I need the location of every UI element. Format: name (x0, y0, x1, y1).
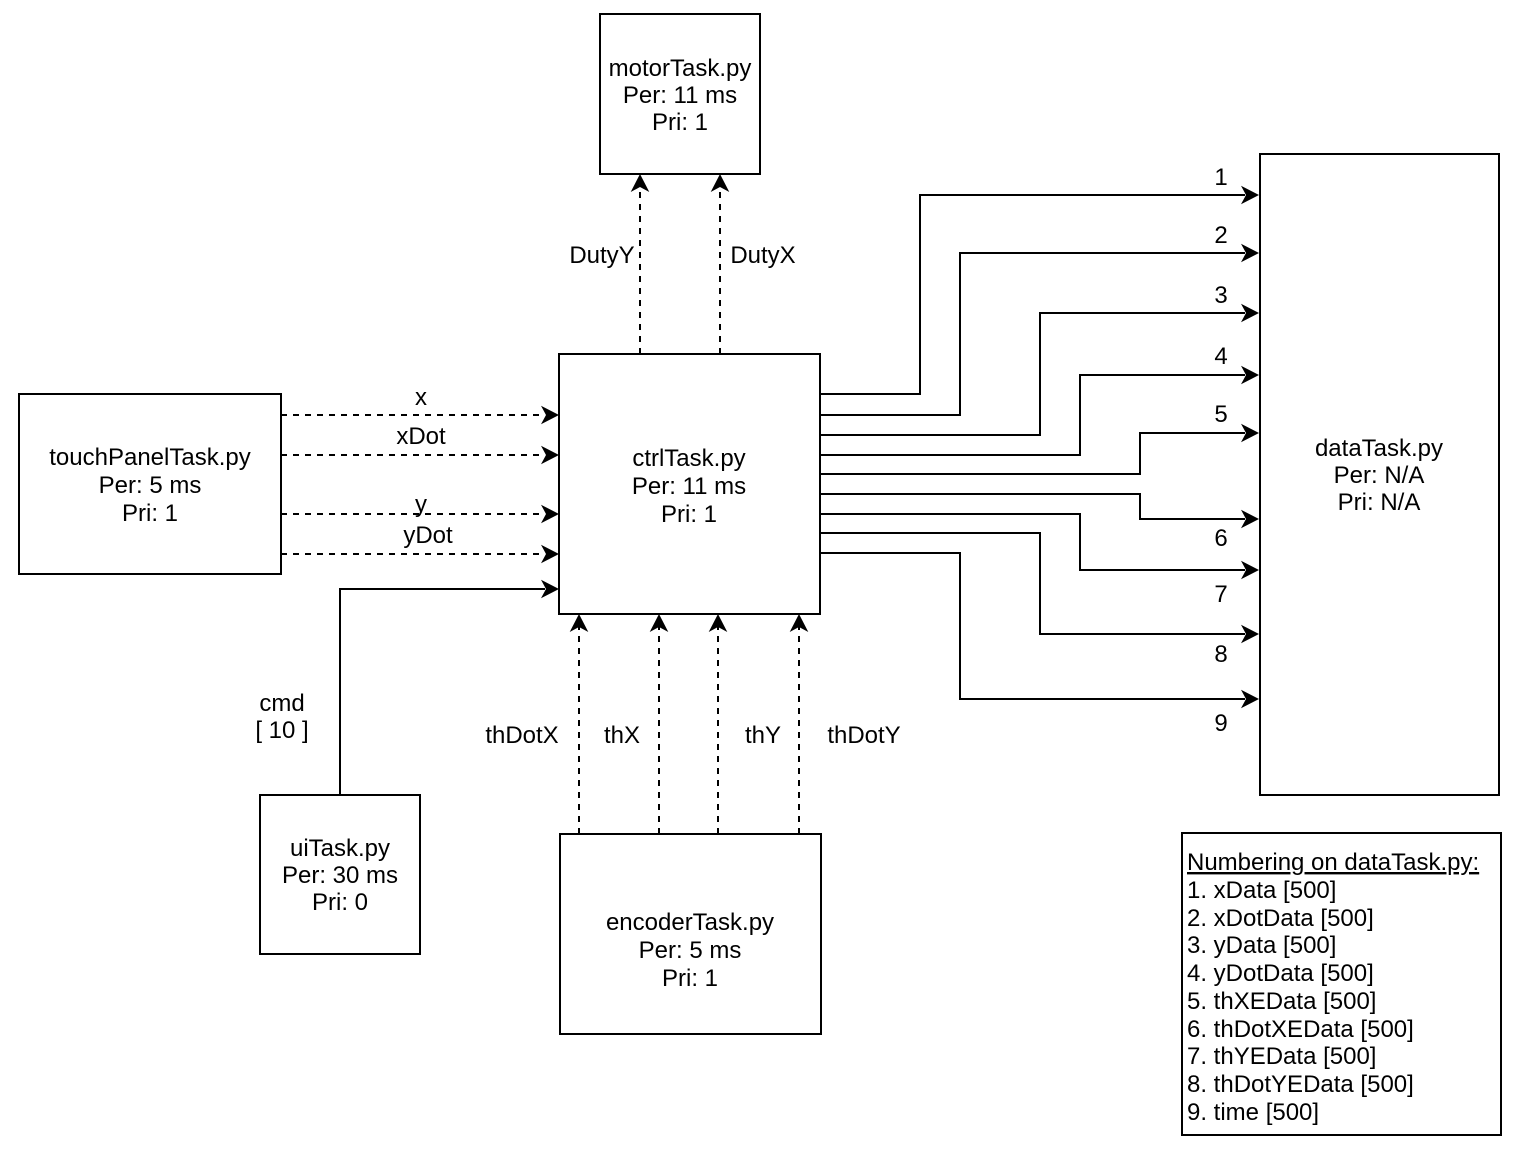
dashed wire xDot (touchPanelTask to ctrlTask) (281, 423, 559, 464)
svg-text:Per: 30 ms: Per: 30 ms (282, 862, 398, 889)
svg-text:y: y (415, 491, 427, 518)
dashed wire x (touchPanelTask to ctrlTask) (281, 384, 559, 424)
svg-text:Numbering on dataTask.py:: Numbering on dataTask.py: (1187, 849, 1479, 876)
dashed wire thDotX (encoderTask to ctrlTask) (485, 614, 588, 834)
wire 5 thXEData (ctrlTask to dataTask) (820, 424, 1259, 474)
svg-text:1. xData [500]: 1. xData [500] (1187, 877, 1336, 904)
svg-text:uiTask.py: uiTask.py (290, 835, 390, 862)
svg-text:cmd: cmd (259, 690, 304, 717)
dashed wire thY (encoderTask to ctrlTask) (709, 614, 781, 834)
svg-text:9: 9 (1214, 710, 1227, 737)
svg-text:ctrlTask.py: ctrlTask.py (632, 445, 745, 472)
wire 2 xDotData (ctrlTask to dataTask) (820, 244, 1259, 415)
wire 6 thDotXEData (ctrlTask to dataTask) (820, 494, 1259, 528)
svg-text:x: x (415, 384, 427, 411)
dashed wire y (touchPanelTask to ctrlTask) (281, 491, 559, 523)
svg-text:[ 10 ]: [ 10 ] (255, 717, 308, 744)
svg-text:Per: 5 ms: Per: 5 ms (99, 472, 202, 499)
svg-text:Pri: 1: Pri: 1 (662, 965, 718, 992)
box uiTask.py (260, 795, 420, 954)
dashed wire DutyY (ctrlTask to motorTask) (569, 174, 649, 354)
box dataTask.py (1260, 154, 1499, 795)
svg-text:dataTask.py: dataTask.py (1315, 435, 1443, 462)
svg-text:thY: thY (745, 722, 781, 749)
svg-text:touchPanelTask.py: touchPanelTask.py (49, 444, 250, 471)
svg-text:7. thYEData [500]: 7. thYEData [500] (1187, 1043, 1376, 1070)
legend box Numbering on dataTask.py (1182, 833, 1501, 1135)
svg-text:3. yData [500]: 3. yData [500] (1187, 932, 1336, 959)
box motorTask.py (600, 14, 760, 174)
svg-text:6. thDotXEData [500]: 6. thDotXEData [500] (1187, 1016, 1414, 1043)
svg-text:8. thDotYEData [500]: 8. thDotYEData [500] (1187, 1071, 1414, 1098)
svg-text:Per: N/A: Per: N/A (1334, 462, 1425, 489)
svg-text:DutyY: DutyY (569, 242, 634, 269)
svg-text:thX: thX (604, 722, 640, 749)
dashed wire thX (encoderTask to ctrlTask) (604, 614, 668, 834)
svg-text:9. time [500]: 9. time [500] (1187, 1099, 1319, 1126)
svg-text:8: 8 (1214, 641, 1227, 668)
svg-text:Pri: 1: Pri: 1 (652, 109, 708, 136)
svg-text:Per: 11 ms: Per: 11 ms (632, 473, 746, 500)
svg-text:Per: 5 ms: Per: 5 ms (639, 937, 742, 964)
svg-text:Pri: 1: Pri: 1 (661, 501, 717, 528)
wire 4 yDotData (ctrlTask to dataTask) (820, 366, 1259, 455)
wire 8 thDotYEData (ctrlTask to dataTask) (820, 533, 1259, 643)
svg-text:Pri: 0: Pri: 0 (312, 889, 368, 916)
svg-text:Per: 11 ms: Per: 11 ms (623, 82, 737, 109)
svg-text:Pri: N/A: Pri: N/A (1338, 489, 1421, 516)
svg-text:thDotY: thDotY (827, 722, 900, 749)
svg-text:2: 2 (1214, 222, 1227, 249)
wire cmd (uiTask to ctrlTask) (255, 580, 559, 795)
wire 7 thYEData (ctrlTask to dataTask) (820, 514, 1259, 579)
svg-text:motorTask.py: motorTask.py (609, 55, 752, 82)
svg-text:yDot: yDot (403, 522, 453, 549)
svg-text:DutyX: DutyX (730, 242, 795, 269)
dashed wire yDot (touchPanelTask to ctrlTask) (281, 522, 559, 563)
svg-text:thDotX: thDotX (485, 722, 558, 749)
svg-text:encoderTask.py: encoderTask.py (606, 909, 774, 936)
svg-text:6: 6 (1214, 525, 1227, 552)
svg-text:Pri: 1: Pri: 1 (122, 500, 178, 527)
wire 3 yData (ctrlTask to dataTask) (820, 304, 1259, 435)
svg-text:5: 5 (1214, 401, 1227, 428)
svg-text:5. thXEData [500]: 5. thXEData [500] (1187, 988, 1376, 1015)
svg-text:4. yDotData [500]: 4. yDotData [500] (1187, 960, 1374, 987)
wire 9 time (ctrlTask to dataTask) (820, 553, 1259, 708)
svg-text:4: 4 (1214, 343, 1227, 370)
svg-text:1: 1 (1214, 164, 1227, 191)
box encoderTask.py (560, 834, 821, 1034)
dashed wire thDotY (encoderTask to ctrlTask) (790, 614, 901, 834)
svg-text:7: 7 (1214, 581, 1227, 608)
svg-text:2. xDotData [500]: 2. xDotData [500] (1187, 905, 1374, 932)
box touchPanelTask.py (19, 394, 281, 574)
dashed wire DutyX (ctrlTask to motorTask) (711, 174, 796, 354)
svg-text:3: 3 (1214, 282, 1227, 309)
wire 1 xData (ctrlTask to dataTask) (820, 186, 1259, 394)
box ctrlTask.py (559, 354, 820, 614)
svg-text:xDot: xDot (396, 423, 446, 450)
